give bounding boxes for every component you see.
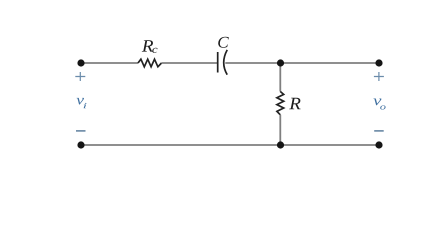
plus sign at vi — [75, 72, 85, 81]
resistor R (shunt) — [277, 92, 284, 115]
label vi — [76, 98, 83, 105]
wire: between C and middle node — [225, 62, 280, 64]
capacitor C left plate — [217, 52, 219, 73]
wire: middle node to output node (top right) — [280, 62, 379, 64]
label Rc — [142, 40, 153, 51]
wire: vertical from resistor R to bottom node — [279, 115, 281, 145]
node: middle bottom junction — [277, 141, 284, 148]
node: input top terminal — [77, 59, 84, 66]
label vo — [373, 99, 381, 106]
wire: between Rc and C — [162, 62, 218, 64]
node: input bottom terminal — [77, 141, 84, 148]
capacitor C right curved plate — [224, 50, 228, 75]
node: middle top junction — [277, 59, 284, 66]
node: output top terminal — [375, 59, 382, 66]
wire: top-left segment from input node to Rc — [81, 62, 138, 64]
wire: vertical from top node to resistor R — [279, 63, 281, 92]
resistor Rc — [138, 59, 162, 67]
minus sign at vi — [76, 130, 86, 132]
node: output bottom terminal — [375, 141, 382, 148]
wire: bottom rail — [81, 144, 379, 146]
minus sign at vo — [374, 130, 384, 132]
plus sign at vo — [374, 72, 384, 81]
label R — [289, 98, 300, 109]
label C — [218, 37, 229, 48]
